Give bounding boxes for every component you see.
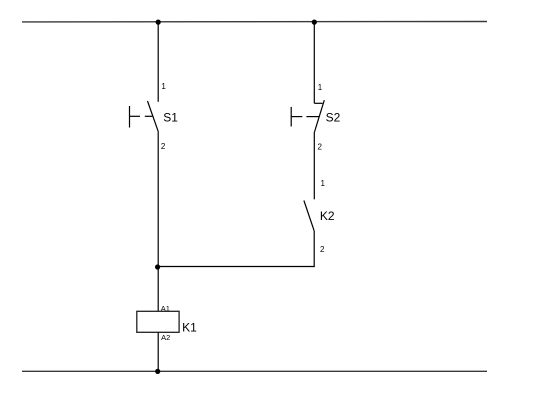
wire: S2 pin 2 down to K2 pin 1 [313, 132, 315, 199]
terminal label A1 of K1 [161, 304, 170, 313]
pushbutton S2 actuator button bar [290, 107, 292, 127]
pin label 1 of S2 [318, 83, 323, 92]
wire: K2 pin 2 down to connector [313, 231, 315, 267]
bottom supply rail N [22, 370, 487, 372]
pin label 2 of S1 [161, 142, 166, 151]
svg-text:S1: S1 [163, 111, 178, 125]
wire: top rail down to S2 pin 1 [313, 22, 315, 103]
pin label 1 of S1 [161, 82, 166, 91]
junction node: top rail to S1 branch [156, 20, 161, 25]
pushbutton S2 (normally closed) fixed contact stub [314, 102, 322, 104]
pin label 2 of K2 [320, 245, 325, 254]
label S1 [163, 111, 178, 125]
wire: horizontal connector from junction A to K2 branch [157, 266, 314, 268]
terminal label A2 of K1 [161, 333, 170, 342]
pushbutton S2 actuator link dash 2 [306, 116, 319, 118]
pushbutton S1 actuator link dash 1 [130, 115, 141, 117]
svg-text:K2: K2 [320, 209, 335, 223]
svg-text:K1: K1 [182, 320, 197, 334]
svg-text:A2: A2 [161, 333, 170, 342]
wire: coil K1 terminal A2 down to bottom rail [157, 332, 159, 371]
svg-text:1: 1 [321, 179, 326, 188]
wire: junction A down to coil K1 terminal A1 [157, 267, 159, 312]
wire: top rail down to S1 pin 1 [157, 22, 159, 102]
pin label 2 of S2 [318, 142, 323, 151]
svg-text:S2: S2 [326, 110, 341, 124]
top supply rail L1 [22, 21, 487, 23]
pushbutton S1 actuator button bar [129, 106, 131, 128]
svg-text:1: 1 [161, 82, 166, 91]
junction node: top rail to S2 branch [312, 20, 317, 25]
svg-text:2: 2 [320, 245, 325, 254]
pushbutton S2 contact blade [315, 100, 325, 132]
wire: S1 pin 2 down to junction A [157, 131, 159, 266]
relay coil K1 [137, 311, 179, 332]
svg-text:1: 1 [318, 83, 323, 92]
relay contact K2 (normally open) blade [304, 201, 314, 231]
svg-text:2: 2 [161, 142, 166, 151]
junction node A (S1 branch joins K2 branch) [155, 264, 160, 269]
pushbutton S2 actuator link dash 1 [291, 116, 302, 118]
label S2 [326, 110, 341, 124]
pushbutton S1 (normally open) contact blade [148, 101, 159, 131]
pin label 1 of K2 [321, 179, 326, 188]
junction node: K1 branch to bottom rail [155, 369, 160, 374]
pushbutton S1 actuator link dash 2 [145, 115, 153, 117]
label K2 [320, 209, 335, 223]
svg-text:2: 2 [318, 142, 323, 151]
label K1 [182, 320, 197, 334]
